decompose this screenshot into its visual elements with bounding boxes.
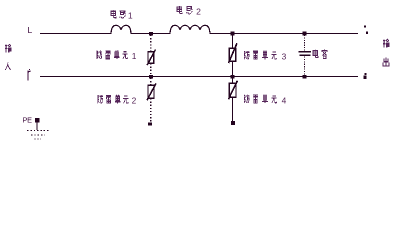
- svg-text:L: L: [28, 25, 33, 35]
- node mark right of N wire end: [364, 73, 367, 79]
- varistor 防雷单元2: [147, 83, 156, 100]
- label 防雷单元2: [98, 95, 129, 104]
- capacitor 电容 plate bottom: [300, 55, 311, 57]
- wire N rail (bottom): [40, 76, 358, 78]
- node PE connection square: [35, 118, 39, 122]
- wire L rail (top): [40, 33, 358, 35]
- svg-text:2: 2: [132, 96, 137, 106]
- inductor 电感1: [111, 25, 131, 34]
- wire solid dropper upper right column: [232, 34, 234, 77]
- label 电感2: [177, 6, 192, 14]
- svg-text:1: 1: [132, 51, 137, 61]
- label 防雷单元1: [97, 50, 128, 59]
- node mark right of L wire end: [364, 26, 368, 34]
- label N (bottom rail): [28, 69, 30, 81]
- varistor 防雷单元4: [228, 81, 237, 100]
- label PE: [23, 115, 33, 124]
- label 防雷单元3: [244, 51, 277, 60]
- node junction N-rail / unit3-4: [231, 75, 235, 79]
- label 输入 (input, vertical, left): [5, 44, 11, 70]
- label 防雷单元4: [244, 94, 277, 103]
- svg-text:PE: PE: [23, 115, 33, 124]
- wire dotted dropper lower left column: [150, 78, 152, 122]
- node junction L-rail / unit3: [231, 32, 235, 36]
- capacitor 电容 plate top: [299, 51, 312, 53]
- node junction L-rail / unit1: [149, 32, 153, 36]
- node junction L-rail / capacitor: [303, 32, 307, 36]
- label 电容: [313, 49, 327, 58]
- node terminal below unit2: [148, 122, 152, 125]
- node junction N-rail / capacitor: [303, 75, 307, 79]
- label 电感1: [111, 10, 126, 18]
- svg-text:4: 4: [282, 96, 287, 106]
- svg-text:1: 1: [128, 10, 133, 20]
- svg-text:3: 3: [282, 52, 287, 62]
- varistor 防雷单元3: [229, 43, 238, 63]
- ground PE symbol: [27, 122, 48, 139]
- node terminal below unit4: [231, 121, 235, 125]
- varistor 防雷单元1: [147, 50, 155, 65]
- svg-text:2: 2: [196, 7, 201, 17]
- inductor 电感2: [170, 25, 210, 34]
- wire dotted dropper upper left column: [150, 35, 152, 76]
- wire dotted capacitor dropper: [304, 35, 306, 76]
- label L (top rail): [28, 25, 33, 35]
- label 输出 (output, vertical, right): [383, 39, 389, 66]
- node junction N-rail / unit1-2: [149, 75, 153, 79]
- wire solid dropper lower right column: [232, 77, 234, 121]
